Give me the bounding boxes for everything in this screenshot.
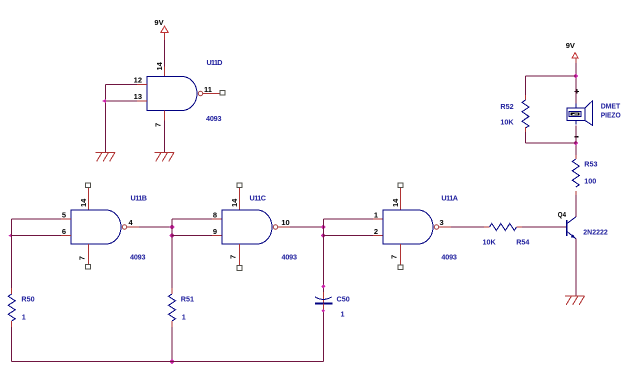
transistor Q4 (2N2222 NPN) [567,217,576,239]
svg-text:14: 14 [155,61,164,70]
junction (U11A pin2 tee) [321,233,326,238]
ground (U11D pin 7) [155,152,175,161]
wire vertical to ground (U11D inputs) [105,85,107,153]
svg-text:R52: R52 [500,102,513,111]
svg-text:14: 14 [79,198,88,207]
svg-text:3: 3 [440,218,444,227]
wire U11A pin1 [323,218,383,220]
junction (9V / R52) [573,73,578,78]
svg-text:2: 2 [374,227,378,236]
junction (U11B out) [169,224,174,229]
svg-text:4093: 4093 [130,252,146,261]
svg-text:PIEZO: PIEZO [601,110,621,119]
wire U11A output to R54 [439,226,490,228]
ground (Q4 emitter) [565,296,585,305]
resistor R53 [572,159,579,187]
nand gate U11C (4093) [222,210,278,244]
svg-text:1: 1 [182,313,186,322]
pin wire U11C pin14 [239,188,241,210]
resistor R50 [8,294,15,321]
svg-text:7: 7 [78,256,87,260]
svg-text:R51: R51 [181,295,194,304]
pin wire U11B pin14 [88,188,90,210]
resistor R52 [522,100,529,128]
svg-text:2N2222: 2N2222 [583,227,607,236]
svg-text:13: 13 [134,92,142,101]
wire R50 bottom to bus [11,321,13,362]
wire U11D pin13 [106,100,147,102]
wire R53 top to piezo bottom junction [575,143,577,159]
resistor R51 [169,294,176,321]
svg-text:5: 5 [62,210,66,219]
pin wire U11A pin14 [399,188,401,210]
wire U11B pin5 [12,218,71,220]
svg-text:4093: 4093 [206,114,222,123]
wire U11D pin 7 to ground [164,111,166,153]
resistor R54 [490,224,517,231]
wire Q4 emitter to ground [575,239,577,296]
svg-text:14: 14 [391,198,400,207]
pin wire U11A pin7 [399,244,401,265]
capacitor C50 [315,297,332,304]
no-connect square (U11C pin 7) [237,266,242,271]
no-connect square (U11A pin 7) [398,265,403,270]
svg-text:8: 8 [213,210,217,219]
svg-text:7: 7 [153,123,162,127]
nand gate U11A (4093) [383,210,439,244]
junction (piezo minus / R52) [573,140,578,145]
svg-text:R54: R54 [516,238,529,247]
wire R52 bottom branch [526,127,576,143]
no-connect square (U11D pin 11) [220,91,225,96]
wire U11C pin8 [172,218,222,220]
no-connect square (U11A pin 14) [398,183,403,188]
svg-text:10K: 10K [483,238,497,247]
wire R52 top branch [526,76,576,100]
no-connect square (U11B pin 7) [85,264,90,269]
svg-text:10: 10 [281,218,289,227]
wire C50 bottom to bus [322,304,324,309]
nand gate U11B (4093) [71,210,127,244]
svg-text:6: 6 [62,227,66,236]
svg-text:DMET: DMET [601,101,621,110]
wire U11C pin9 [172,235,222,237]
junction (bus / R51) [169,359,174,364]
wire R54 to Q4 base [517,226,567,228]
svg-text:100: 100 [584,176,596,185]
svg-text:10K: 10K [500,118,514,127]
wire bottom bus [12,361,324,363]
pin wire U11C pin7 [239,244,241,266]
wire vertical x=323.3 [322,219,324,292]
power 9V (left) [154,18,168,33]
svg-text:U11A: U11A [441,194,458,203]
junction (mid vertical) [321,284,325,288]
label plus [575,89,579,93]
wire R51 bottom to bus [171,321,173,362]
wire U11B output to U11C inputs [127,226,172,228]
svg-text:C50: C50 [337,294,350,303]
svg-text:14: 14 [230,198,239,207]
wire piezo top to 9V [575,58,577,104]
wire red pin stub R50 top [11,288,13,294]
no-connect square (U11B pin 14) [85,183,90,188]
svg-text:12: 12 [134,76,142,85]
wire Q4 collector to R53 [575,191,577,217]
junction (C50 pin) [322,309,325,312]
nand gate U11D (4093) [147,77,203,111]
wire U11C output to U11A inputs [278,226,323,228]
wire U11A pin2 [323,235,383,237]
wire vertical x=172 [171,219,173,294]
svg-text:9V: 9V [566,41,575,50]
wire U11D output [203,93,220,95]
svg-text:4093: 4093 [441,252,457,261]
svg-text:9V: 9V [154,18,163,27]
svg-text:7: 7 [229,255,238,259]
svg-text:U11B: U11B [131,194,148,203]
svg-text:R53: R53 [584,159,597,168]
svg-text:U11D: U11D [207,58,223,67]
svg-text:1: 1 [341,310,345,319]
piezo buzzer DMET PIEZO [567,101,592,125]
wire piezo bottom [575,126,577,144]
svg-text:R50: R50 [21,295,34,304]
svg-text:1: 1 [374,210,378,219]
svg-text:1: 1 [22,313,26,322]
wire 9V to U11D pin 14 [164,32,166,76]
junction (U11C out) [321,224,326,229]
junction (U11D inputs) [102,99,106,104]
wire U11D pin12 [106,84,147,86]
ground (left, U11D inputs) [96,152,116,161]
label minus [575,136,579,138]
svg-text:Q4: Q4 [558,210,567,219]
no-connect square (U11C pin 14) [237,183,242,188]
svg-text:9: 9 [213,227,217,236]
power 9V (right) [566,41,578,58]
wire U11B pin6 [12,235,71,237]
junction (U11B pin6 tee) [8,233,12,238]
pin wire U11B pin7 [88,244,90,264]
svg-text:4093: 4093 [282,252,298,261]
svg-text:7: 7 [389,255,398,259]
svg-text:11: 11 [204,85,212,94]
junction (U11C pin9 tee) [169,233,174,238]
wire red pin stub R51 top [171,288,173,294]
svg-text:U11C: U11C [250,194,267,203]
wire left vertical down to R50 [11,219,13,294]
